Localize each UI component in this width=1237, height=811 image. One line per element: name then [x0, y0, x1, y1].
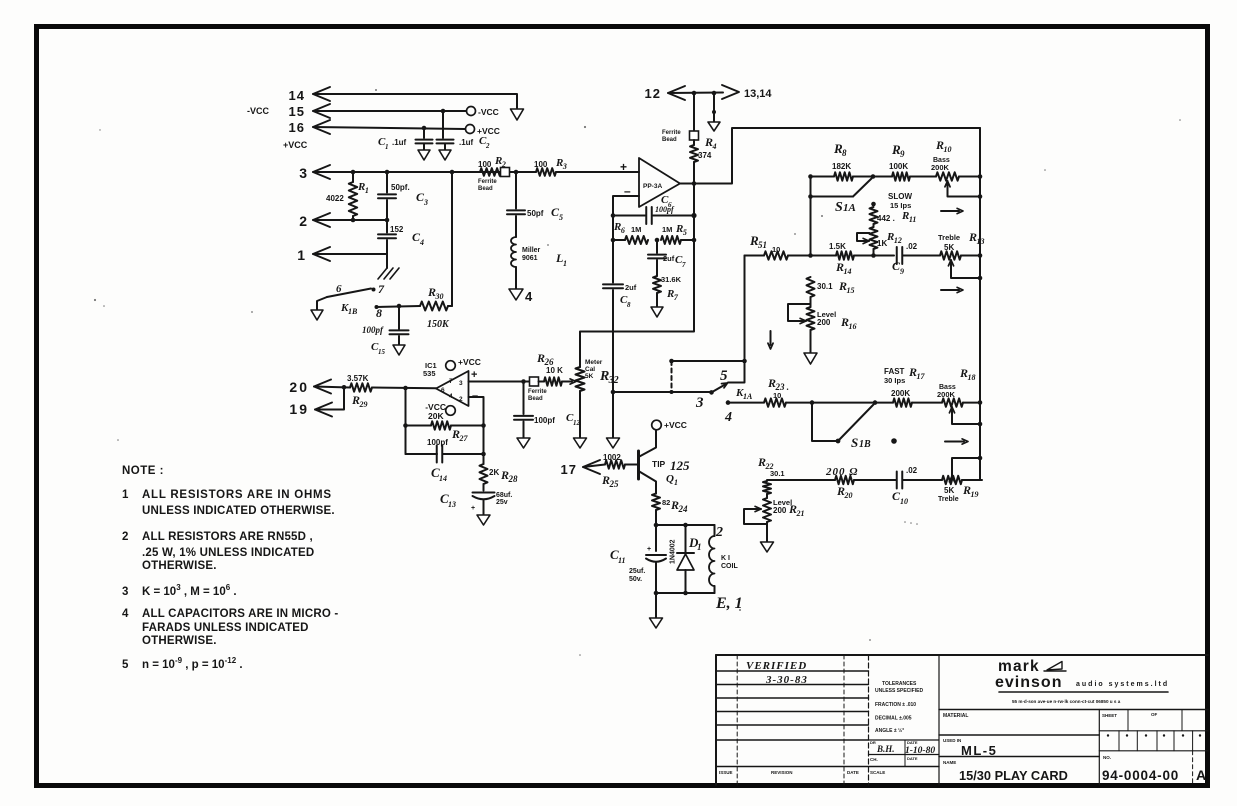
transistor Q1 TIP125	[637, 451, 640, 479]
potentiometer R21 Level 200	[763, 498, 771, 522]
svg-text:24: 24	[677, 504, 688, 514]
ground (C13)	[477, 515, 490, 525]
svg-text:125: 125	[670, 458, 690, 473]
svg-text:FAST: FAST	[884, 367, 905, 376]
inductor L1 Miller 9061	[511, 237, 516, 267]
svg-text:UNLESS INDICATED OTHERWISE.: UNLESS INDICATED OTHERWISE.	[142, 505, 335, 517]
svg-text:+: +	[471, 505, 475, 512]
wire output vertical to bottom rail	[580, 184, 694, 368]
svg-text:UNLESS SPECIFIED: UNLESS SPECIFIED	[875, 688, 923, 694]
svg-text:200: 200	[817, 318, 831, 327]
ground (C2)	[439, 150, 451, 160]
wire pin20 row	[314, 387, 350, 388]
svg-text:17: 17	[916, 372, 925, 381]
wire R16 to ground	[810, 330, 812, 353]
svg-text:1A: 1A	[843, 202, 856, 214]
svg-text:1.5K: 1.5K	[829, 242, 846, 251]
wire pin12 node	[668, 92, 723, 95]
resistor R3 100	[536, 168, 556, 176]
svg-text:MATERIAL: MATERIAL	[943, 713, 968, 719]
svg-text:TIP: TIP	[652, 459, 666, 469]
svg-text:9: 9	[900, 267, 904, 276]
svg-text:10: 10	[900, 497, 908, 506]
svg-text:1M: 1M	[662, 225, 672, 234]
svg-text:B.H.: B.H.	[876, 744, 895, 754]
svg-text:20: 20	[843, 491, 852, 500]
resistor R1 4022	[352, 172, 354, 182]
svg-text:28: 28	[507, 474, 518, 484]
svg-text:A: A	[1196, 767, 1206, 783]
svg-text:374: 374	[698, 151, 712, 160]
node R30 branch	[450, 170, 455, 175]
svg-text:E, 1: E, 1	[715, 595, 743, 612]
svg-text:OTHERWISE.: OTHERWISE.	[142, 635, 217, 647]
node bus/R19 wiper	[978, 456, 983, 461]
svg-text:5K: 5K	[944, 486, 954, 495]
svg-text:-VCC: -VCC	[247, 106, 269, 116]
svg-text:16: 16	[289, 120, 305, 135]
svg-text:442 .: 442 .	[877, 214, 895, 223]
node R8/R9 (S1A throw)	[871, 174, 876, 179]
svg-text:OTHERWISE.: OTHERWISE.	[142, 560, 217, 572]
relay contact K1A blade	[709, 390, 714, 395]
svg-text:100pf: 100pf	[427, 438, 448, 447]
svg-text:21: 21	[795, 509, 804, 518]
svg-text:S: S	[851, 435, 858, 450]
svg-text:100: 100	[478, 160, 492, 169]
svg-text:100pf: 100pf	[655, 205, 675, 214]
svg-text:1B: 1B	[348, 307, 358, 316]
capacitor C2 .1uf	[442, 111, 444, 138]
svg-text:Miller: Miller	[522, 247, 541, 254]
ground (pin14 stub)	[511, 109, 524, 120]
capacitor C15 100pf	[398, 306, 400, 329]
svg-text:1K: 1K	[877, 239, 887, 248]
svg-text:DATE: DATE	[847, 770, 859, 775]
dr/check rows	[869, 739, 940, 741]
resistor R5 1M	[661, 236, 681, 244]
svg-text:4: 4	[419, 238, 424, 247]
svg-text:2: 2	[299, 213, 307, 229]
svg-text:17: 17	[561, 462, 577, 477]
svg-text:4: 4	[122, 608, 129, 620]
svg-text:2K: 2K	[489, 468, 499, 477]
svg-text:+VCC: +VCC	[283, 140, 308, 150]
svg-text:68uf.: 68uf.	[496, 492, 512, 499]
resistor R24 82	[652, 494, 660, 511]
svg-text:30 Ips: 30 Ips	[884, 376, 905, 385]
ground (meter line)	[607, 438, 620, 448]
material cell	[939, 709, 1208, 711]
ground (C12)	[517, 438, 530, 448]
svg-text:7: 7	[449, 378, 453, 385]
svg-text:2: 2	[485, 142, 490, 150]
svg-text:9061: 9061	[522, 255, 538, 262]
svg-text:K = 103 , M = 106 .: K = 103 , M = 106 .	[142, 583, 237, 598]
svg-text:3: 3	[459, 380, 463, 387]
node K1A contact 4	[726, 400, 731, 405]
wire pin17 row	[583, 465, 605, 468]
resistor R23 10	[764, 398, 786, 406]
capacitor C7 2uf	[656, 240, 658, 253]
svg-text:10: 10	[772, 245, 780, 254]
title block revision columns	[736, 655, 738, 785]
svg-text:7: 7	[682, 261, 686, 269]
svg-text:ALL RESISTORS ARE RN55D ,: ALL RESISTORS ARE RN55D ,	[142, 531, 313, 543]
ground (relay rail)	[650, 618, 663, 628]
wire pin3 row	[313, 171, 501, 173]
node C14 right	[481, 452, 486, 457]
svg-text:100pf: 100pf	[362, 325, 384, 335]
potentiometer R12 1K	[870, 227, 878, 249]
svg-text:5: 5	[559, 213, 563, 222]
svg-text:50v.: 50v.	[629, 576, 642, 583]
svg-text:31.6K: 31.6K	[661, 275, 682, 284]
node C11 bottom	[654, 591, 659, 596]
potentiometer R13 Treble 5K	[940, 251, 961, 259]
terminal +VCC (Q1 collector)	[652, 420, 662, 430]
svg-text:5: 5	[683, 228, 687, 237]
node C2 tap on pin15 line	[441, 109, 446, 114]
resistor R17 FAST 30ips 200K	[893, 398, 912, 406]
svg-text:15: 15	[846, 286, 854, 295]
svg-text:100: 100	[534, 160, 548, 169]
terminal circle +VCC	[466, 125, 475, 134]
svg-text:55 m‧d‧son ave‧ue n‧rw‧lk co: 55 m‧d‧son ave‧ue n‧rw‧lk conn‧ct‧cut 06…	[1012, 699, 1121, 704]
svg-text:VERIFIED: VERIFIED	[746, 660, 807, 672]
wire feedback left vertical	[612, 216, 614, 241]
potentiometer R10 Bass 200K	[936, 172, 959, 180]
wire feedback left vertical (IC1)	[405, 388, 407, 454]
wire C8 bottom to K1A row and ground	[612, 290, 614, 392]
diode D1 1N4002	[685, 525, 687, 553]
svg-text:.02: .02	[906, 242, 918, 251]
resistor R22 30.1	[763, 481, 771, 494]
svg-text:152: 152	[390, 225, 404, 234]
capacitor C13 68uf 25v	[473, 492, 495, 494]
node dashed link top	[669, 359, 674, 364]
svg-text:4: 4	[449, 393, 453, 400]
svg-text:1: 1	[122, 489, 129, 501]
svg-text:25uf.: 25uf.	[629, 568, 645, 575]
resistor R25 1002	[605, 460, 625, 468]
node R1 bottom	[351, 218, 356, 223]
svg-text:-VCC: -VCC	[478, 107, 499, 117]
wire K1A contact3 row	[613, 391, 712, 393]
svg-text:Q: Q	[666, 473, 674, 485]
capacitor C11 25uf 50v	[655, 525, 657, 551]
svg-text:SCALE: SCALE	[870, 770, 885, 775]
svg-text:TOLERANCES: TOLERANCES	[882, 681, 917, 687]
svg-text:13: 13	[976, 237, 984, 246]
svg-text:14: 14	[289, 88, 305, 103]
svg-text:.1uf: .1uf	[459, 138, 474, 147]
check cells row	[1099, 750, 1208, 752]
switch S1A	[811, 196, 854, 198]
svg-text:2uf: 2uf	[663, 254, 675, 263]
node bus/R10 wiper	[978, 194, 983, 199]
svg-text:9: 9	[900, 149, 905, 159]
resistor R28 2K	[480, 464, 488, 484]
wire R30 right vertical to pin3 row	[451, 172, 453, 306]
ground (R32)	[574, 438, 587, 448]
node feedback tap	[403, 386, 408, 391]
resistor R27 20K	[406, 425, 432, 427]
terminal -VCC (IC1 pin4)	[446, 406, 456, 416]
op-amp PP-3A	[639, 158, 680, 207]
svg-text:19: 19	[289, 401, 309, 417]
svg-text:+VCC: +VCC	[664, 420, 687, 430]
svg-text:2: 2	[715, 525, 723, 540]
svg-text:8: 8	[627, 301, 631, 309]
svg-text:ANGLE ± ½°: ANGLE ± ½°	[875, 727, 904, 734]
svg-text:OF: OF	[1151, 712, 1158, 717]
svg-text:25v: 25v	[496, 499, 508, 506]
ground (K1B)	[311, 310, 323, 320]
svg-text:50pf.: 50pf.	[391, 183, 410, 192]
svg-text:100pf: 100pf	[534, 416, 555, 425]
svg-text:Treble: Treble	[938, 233, 960, 242]
node bus/R10	[978, 174, 983, 179]
svg-text:27: 27	[458, 434, 468, 443]
resistor R4 374	[693, 140, 695, 145]
node D1 bottom	[683, 591, 688, 596]
svg-text:11: 11	[618, 556, 626, 565]
svg-text:182K: 182K	[832, 162, 851, 171]
node R5 right	[692, 238, 697, 243]
svg-text:1B: 1B	[859, 439, 871, 450]
op-amp IC1 535	[436, 371, 469, 406]
arrow annotation down (slow row)	[770, 331, 772, 345]
pin 4 (down triangle)	[509, 289, 523, 300]
svg-text:NOTE :: NOTE :	[122, 465, 164, 477]
svg-text:15: 15	[289, 104, 305, 119]
svg-text:REVISION: REVISION	[771, 770, 793, 775]
ferrite bead (R2)	[501, 168, 510, 177]
svg-text:8: 8	[842, 148, 847, 158]
wire relay top rail	[656, 524, 715, 526]
svg-text:USED IN: USED IN	[943, 738, 961, 743]
title block revision rows	[716, 670, 869, 672]
svg-text:200K: 200K	[931, 163, 950, 172]
svg-text:29: 29	[358, 400, 367, 409]
node C15 tap	[397, 304, 402, 309]
svg-text:Treble: Treble	[938, 496, 959, 503]
node R27 left	[403, 423, 408, 428]
resistor R11 442 (SLOW 15ips)	[871, 202, 876, 207]
svg-text:ALL RESISTORS ARE IN OHMS: ALL RESISTORS ARE IN OHMS	[142, 489, 332, 501]
node bus/R18	[978, 400, 983, 405]
wire pin15 to -VCC terminal	[313, 110, 466, 112]
resistor R26 10K	[539, 381, 545, 383]
capacitor C14 100pf	[406, 453, 438, 455]
svg-text:CH.: CH.	[870, 757, 878, 762]
svg-text:Bead: Bead	[662, 137, 677, 143]
terminal +VCC (IC1 pin7)	[446, 361, 456, 371]
wire L1 to pin4	[515, 267, 517, 289]
wire pin16 to +VCC terminal	[313, 127, 465, 129]
svg-text:4: 4	[711, 142, 716, 151]
svg-text:12: 12	[894, 236, 902, 245]
svg-text:COIL: COIL	[721, 563, 738, 570]
wire IC1 pin3 row	[469, 381, 531, 383]
node C4 top	[385, 218, 390, 223]
arrow annotation slow-treble	[941, 289, 959, 291]
svg-text:1A: 1A	[743, 392, 753, 401]
wire R8 row left vertical	[810, 177, 812, 256]
capacitor C6 100pf (feedback)	[611, 213, 616, 218]
svg-text:50pf: 50pf	[527, 209, 544, 218]
node 13,14 stub	[712, 91, 717, 96]
relay K1 coil	[714, 525, 716, 536]
wire top line right bus	[979, 128, 981, 480]
svg-text:.02: .02	[906, 466, 918, 475]
svg-text:1: 1	[297, 247, 305, 263]
capacitor C10 .02	[896, 472, 898, 489]
svg-text:100K: 100K	[889, 162, 908, 171]
wire PP-3A output to top line	[680, 128, 980, 184]
svg-text:2uf: 2uf	[625, 283, 637, 292]
stray contact dot	[891, 438, 897, 444]
svg-text:10: 10	[943, 145, 951, 154]
svg-text:5K: 5K	[944, 243, 954, 252]
ground (R21)	[761, 542, 774, 552]
terminal circle -VCC	[467, 107, 476, 116]
svg-text:Cal: Cal	[585, 366, 595, 373]
svg-text:+: +	[471, 369, 477, 381]
svg-text:NAME: NAME	[943, 760, 956, 765]
svg-text:.1uf: .1uf	[392, 138, 407, 147]
node relay top rail	[654, 523, 659, 528]
resistor R9 100K	[873, 176, 892, 178]
svg-text:S: S	[835, 200, 843, 215]
chassis ground (C4 bottom)	[386, 254, 388, 268]
svg-text:FRACTION ± .010: FRACTION ± .010	[875, 702, 916, 708]
node C1 tap on pin16 line	[422, 126, 427, 131]
resistor R20 200ohm	[835, 476, 854, 484]
capacitor C9 .02	[896, 247, 898, 264]
svg-text:+: +	[620, 160, 627, 174]
arrow annotation fast	[945, 441, 964, 443]
svg-text:Bead: Bead	[478, 186, 493, 192]
svg-text:DATE: DATE	[907, 740, 918, 745]
svg-text:16: 16	[848, 322, 856, 331]
svg-text:3.57K: 3.57K	[347, 374, 369, 383]
node R27 right	[481, 423, 486, 428]
svg-text:15: 15	[378, 348, 386, 356]
svg-text:5: 5	[122, 659, 129, 671]
svg-text:32: 32	[608, 375, 619, 386]
ground (R16)	[804, 353, 817, 364]
svg-text:.25 W, 1% UNLESS INDICATED: .25 W, 1% UNLESS INDICATED	[142, 547, 314, 559]
svg-text:1: 1	[674, 478, 678, 487]
svg-text:3: 3	[562, 162, 567, 171]
svg-text:ML-5: ML-5	[961, 743, 997, 758]
svg-text:10 K: 10 K	[546, 366, 563, 375]
svg-text:51: 51	[758, 240, 767, 250]
node R6/R5/C7	[655, 238, 660, 243]
svg-text:6: 6	[336, 283, 342, 295]
svg-text:4022: 4022	[326, 194, 344, 203]
svg-text:1N4002: 1N4002	[670, 539, 677, 564]
svg-text:DR: DR	[870, 740, 876, 745]
svg-text:Ferrite: Ferrite	[662, 130, 681, 136]
svg-text:535: 535	[423, 369, 436, 378]
wire fast row	[728, 402, 764, 404]
svg-text:6: 6	[621, 226, 625, 235]
svg-text:30: 30	[434, 292, 443, 301]
svg-text:200: 200	[773, 506, 787, 515]
name cell	[939, 756, 1099, 758]
svg-text:12: 12	[573, 419, 581, 427]
svg-text:SLOW: SLOW	[888, 192, 912, 201]
resistor R7 31.6K	[653, 276, 661, 293]
arrow annotation slow-bass	[941, 210, 959, 212]
potentiometer R16 Level 200	[810, 297, 812, 307]
node C3 top	[385, 170, 390, 175]
svg-text:Meter: Meter	[585, 359, 603, 366]
svg-text:13,14: 13,14	[744, 88, 772, 100]
ferrite bead (R26)	[530, 377, 539, 386]
svg-text:150K: 150K	[427, 319, 450, 330]
svg-text:1M: 1M	[631, 225, 641, 234]
svg-text:200K: 200K	[891, 389, 910, 398]
ground (C15)	[393, 345, 405, 355]
svg-text:11: 11	[909, 215, 917, 224]
capacitor C1 .1uf	[423, 128, 425, 138]
potentiometer R18 Bass 200K (fast)	[942, 398, 963, 406]
svg-text:1-10-80: 1-10-80	[905, 746, 935, 756]
svg-text:K I: K I	[721, 555, 730, 562]
wire contact8 row	[377, 306, 421, 307]
svg-text:14: 14	[439, 474, 447, 483]
capacitor C5 50pf	[515, 172, 517, 209]
svg-text:1: 1	[697, 542, 702, 552]
wire pin14 to ground stub	[313, 94, 517, 108]
svg-text:3: 3	[695, 395, 704, 411]
svg-text:5: 5	[720, 368, 728, 384]
svg-text:30.1: 30.1	[770, 469, 785, 478]
sheet-of cells	[1098, 710, 1100, 786]
wire pin1 row	[313, 253, 387, 255]
svg-text:20: 20	[289, 379, 309, 395]
wire inverting input	[613, 196, 639, 216]
node S1B throw	[873, 400, 878, 405]
svg-text:1: 1	[365, 186, 369, 195]
ferrite bead (R4 branch)	[693, 93, 695, 131]
svg-text:1: 1	[563, 259, 567, 268]
svg-text:94-0004-00: 94-0004-00	[1102, 768, 1179, 783]
svg-text:18: 18	[967, 373, 975, 382]
resistor R8 182K	[811, 176, 835, 178]
svg-text:30.1: 30.1	[817, 282, 833, 291]
ground triangle (13,14 stub)	[708, 122, 720, 131]
svg-text:25: 25	[608, 479, 619, 489]
svg-text:2: 2	[459, 396, 463, 403]
resistor R29 3.57K	[350, 383, 372, 391]
svg-text:15 Ips: 15 Ips	[890, 201, 911, 210]
svg-text:+VCC: +VCC	[458, 357, 481, 367]
resistor R30 150K	[420, 302, 448, 311]
svg-text:12: 12	[645, 86, 661, 101]
wire pin2 row	[313, 219, 387, 221]
svg-text:200K: 200K	[937, 390, 956, 399]
svg-text:PP-3A: PP-3A	[643, 183, 662, 190]
svg-text:3-30-83: 3-30-83	[765, 674, 808, 686]
wire treble-fast row	[767, 479, 835, 481]
svg-text:Bead: Bead	[528, 396, 543, 402]
svg-text:Ferrite: Ferrite	[528, 389, 547, 395]
